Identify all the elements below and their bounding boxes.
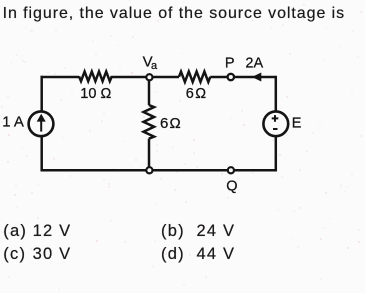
svg-text:2A: 2A [245, 56, 263, 72]
option (c) value [33, 246, 72, 262]
wire left vertical lower [40, 136, 43, 171]
node Q [228, 167, 234, 173]
wire node Va to R2 [153, 76, 180, 79]
option (a) [3, 223, 27, 239]
title question text [3, 6, 345, 22]
svg-text:6Ω: 6Ω [186, 86, 208, 102]
voltage source minus sign [273, 128, 278, 130]
wire R3 down to bottom node [148, 139, 151, 167]
wire node P to top-right corner [234, 76, 276, 79]
current source arrow head [37, 114, 46, 122]
wire right vertical lower [275, 136, 278, 171]
option (c) [3, 246, 26, 262]
option (d) [161, 246, 185, 262]
wire node Va down to R3 [148, 80, 151, 105]
voltage source E circle [263, 111, 288, 136]
wire left vertical upper [40, 76, 43, 112]
option (b) value [197, 223, 236, 239]
svg-text:E: E [292, 115, 302, 131]
current source I1 circle [29, 111, 54, 136]
svg-text:P: P [225, 56, 235, 72]
wire bottom horizontal [41, 169, 277, 172]
current arrow 2A head [252, 73, 261, 82]
current source arrow shaft [40, 122, 42, 132]
wire right vertical upper [275, 76, 278, 112]
svg-text:1 A: 1 A [2, 114, 24, 131]
svg-text:a: a [151, 60, 158, 72]
wire top-left horizontal [41, 76, 80, 79]
svg-text:6Ω: 6Ω [160, 115, 182, 132]
option (d) value [197, 246, 236, 262]
wire R1 to node Va [111, 76, 146, 79]
wire R2 to node P [210, 76, 227, 79]
resistor R3 6ohm vertical zigzag [144, 105, 155, 139]
node Va [146, 74, 152, 80]
resistor R1 10ohm zigzag [79, 72, 112, 82]
svg-text:10 Ω: 10 Ω [80, 86, 111, 102]
voltage source plus sign [272, 115, 279, 122]
svg-text:Q: Q [226, 179, 237, 195]
option (a) value [33, 223, 72, 239]
node below resistor R3 [146, 167, 152, 173]
option (b) [161, 223, 185, 239]
node P [228, 74, 234, 80]
resistor R2 6ohm horizontal zigzag [179, 72, 210, 82]
